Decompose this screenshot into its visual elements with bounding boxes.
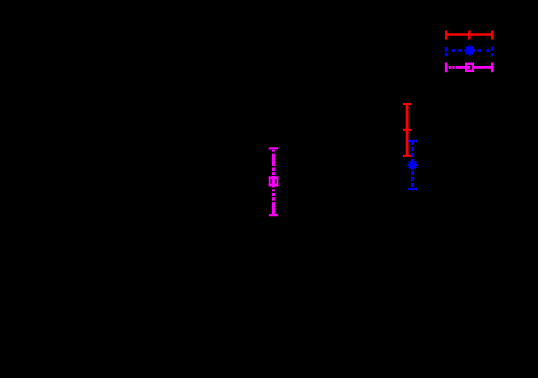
blue data asterisk marker (407, 160, 417, 171)
magenta data square marker (269, 176, 279, 186)
blue data errorbar (408, 141, 417, 189)
magenta data errorbar (269, 148, 279, 215)
legend blue asterisk marker (464, 45, 474, 55)
legend magenta square marker (465, 63, 474, 72)
red data errorbar (403, 104, 411, 156)
legend red errorbar sample (446, 31, 492, 40)
legend magenta errorbar sample (446, 63, 492, 73)
legend blue errorbar sample (446, 47, 492, 56)
